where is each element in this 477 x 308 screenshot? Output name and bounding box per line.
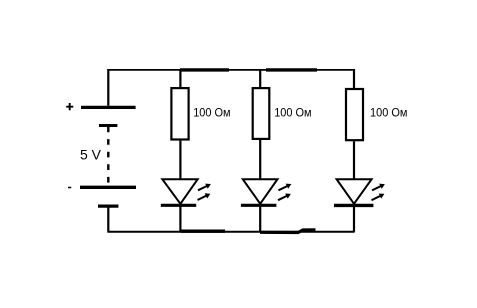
LED D3 cathode bar xyxy=(334,204,373,207)
label: battery - terminal xyxy=(68,187,71,189)
wire: top rail xyxy=(107,69,354,71)
wire: LED D3 to bottom rail xyxy=(353,205,355,232)
LED D2 light arrow 1 xyxy=(277,181,292,192)
label: battery + terminal xyxy=(66,103,73,110)
LED D3 anode triangle xyxy=(337,179,372,204)
wire: LED D2 to bottom rail xyxy=(259,205,261,232)
battery B1 cell 2 positive plate xyxy=(80,186,136,189)
svg-text:5 V: 5 V xyxy=(80,147,102,163)
wire: bottom rail thick segment 2 xyxy=(260,230,316,233)
battery B1 cell 2 negative plate xyxy=(98,205,118,208)
wire: top rail to resistor R2 xyxy=(259,70,261,88)
battery B1 cell 1 negative plate xyxy=(99,124,117,127)
resistor R3 xyxy=(346,89,363,140)
wire: bottom rail xyxy=(107,231,354,233)
battery B1 dashed link (omitted cells) xyxy=(107,127,109,186)
wire: R1 to LED D1 xyxy=(179,141,181,179)
battery B1 cell 1 positive plate xyxy=(81,106,136,109)
LED D1 anode triangle xyxy=(162,179,197,204)
LED D2 cathode bar xyxy=(241,204,277,207)
wire: bottom rail thick segment 1 xyxy=(181,229,225,232)
svg-text:100 Ом: 100 Ом xyxy=(370,106,407,120)
resistor R2 xyxy=(253,88,270,139)
LED D1 light arrow 2 xyxy=(196,191,211,202)
wire: top rail to resistor R1 xyxy=(179,70,181,88)
wire: top rail thick segment 1 xyxy=(180,68,229,71)
battery B1 negative lead wire xyxy=(107,206,109,232)
svg-text:100 Ом: 100 Ом xyxy=(274,105,311,119)
LED D2 anode triangle xyxy=(243,179,278,204)
LED D1 light arrow 1 xyxy=(197,181,212,192)
LED D3 light arrow 1 xyxy=(371,182,386,193)
svg-text:100 Ом: 100 Ом xyxy=(193,106,230,120)
wire: LED D1 to bottom rail xyxy=(179,205,181,232)
resistor R1 xyxy=(171,88,188,139)
battery B1 positive lead wire xyxy=(107,69,109,106)
LED D1 cathode bar xyxy=(161,204,196,207)
wire: top rail to resistor R3 xyxy=(353,69,355,88)
wire: R3 to LED D3 xyxy=(353,141,355,179)
wire: top rail thick segment 2 xyxy=(266,68,317,71)
LED D2 light arrow 2 xyxy=(277,191,292,202)
LED D3 light arrow 2 xyxy=(370,191,385,202)
wire: R2 to LED D2 xyxy=(259,140,261,179)
